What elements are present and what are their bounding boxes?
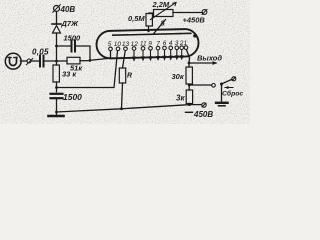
- svg-text:0,5М: 0,5М: [128, 14, 145, 23]
- svg-text:13: 13: [122, 41, 130, 48]
- svg-text:5: 5: [108, 41, 112, 48]
- svg-text:Выход: Выход: [197, 54, 222, 63]
- svg-text:9: 9: [148, 41, 152, 48]
- svg-text:1500: 1500: [63, 92, 82, 102]
- svg-text:2,2М: 2,2М: [152, 0, 170, 9]
- svg-text:1500: 1500: [64, 34, 82, 43]
- svg-text:R: R: [127, 73, 132, 80]
- svg-text:12: 12: [131, 41, 139, 48]
- svg-text:450В: 450В: [193, 110, 213, 119]
- svg-text:11: 11: [140, 41, 147, 48]
- svg-text:0,05: 0,05: [32, 47, 49, 56]
- svg-text:4: 4: [169, 40, 173, 47]
- svg-text:30к: 30к: [172, 72, 185, 81]
- svg-text:40В: 40В: [60, 5, 76, 14]
- svg-text:6: 6: [163, 40, 167, 47]
- svg-text:Д7Ж: Д7Ж: [61, 19, 80, 28]
- svg-text:7: 7: [156, 40, 160, 47]
- svg-text:10: 10: [114, 41, 122, 48]
- svg-text:3: 3: [175, 40, 179, 47]
- svg-text:+450В: +450В: [183, 16, 206, 25]
- svg-text:1: 1: [183, 40, 187, 47]
- svg-text:Сброс: Сброс: [222, 89, 243, 97]
- svg-text:3к: 3к: [176, 94, 185, 103]
- svg-text:33 к: 33 к: [62, 70, 77, 79]
